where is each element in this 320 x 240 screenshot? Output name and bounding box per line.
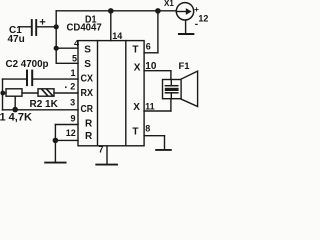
label 10 and wire pin 10 to speaker: [145, 61, 157, 72]
wire top +12V rail: [56, 10, 176, 12]
svg-text:T: T: [132, 127, 138, 138]
label 6: [146, 41, 151, 51]
svg-text:12: 12: [66, 128, 76, 138]
IC inner left separator: [97, 41, 99, 146]
svg-text:14: 14: [112, 31, 122, 41]
node pin 12 junction: [53, 138, 59, 144]
wire vertical from rail down to pin 5 (C1 branch): [55, 11, 57, 64]
pin number labels left side: [66, 38, 79, 138]
svg-text:S: S: [84, 59, 91, 70]
speaker F1 horn: [181, 71, 198, 106]
label C2 4700p: [6, 59, 49, 70]
pin 14 stub: [110, 11, 112, 41]
label X1: [164, 0, 174, 8]
label 7: [99, 144, 104, 154]
node left bus / pin 2 row: [0, 91, 5, 96]
label D1 CD4047: [67, 14, 103, 33]
svg-text:F1: F1: [179, 61, 191, 72]
svg-text:C2 4700p: C2 4700p: [6, 59, 49, 70]
wire X1 to ground: [185, 20, 187, 34]
speaker F1 piezo box: [163, 80, 182, 99]
wire R2 to pin 2: [54, 92, 78, 94]
svg-text:12: 12: [198, 13, 208, 23]
svg-text:CR: CR: [81, 104, 94, 115]
source X1 circle: [176, 3, 193, 20]
svg-text:-: -: [195, 19, 198, 30]
node C1 right junction: [54, 24, 59, 29]
resistor R1: [6, 89, 22, 96]
capacitor C1: [19, 20, 56, 35]
wire R1 bottom tap down to pin 3 wire: [14, 96, 16, 110]
svg-text:1: 1: [70, 68, 75, 78]
label 14: [112, 31, 122, 41]
wire pin 6 to rail: [144, 11, 158, 53]
svg-text:T: T: [132, 44, 138, 55]
label 8 and wire pin 8 to ground: [145, 124, 150, 134]
wire pin 1 right segment: [33, 78, 78, 80]
wire vertical pins 9/12 to ground: [54, 125, 56, 162]
resistor R2 (hatched): [38, 89, 54, 96]
IC pin function labels right column: [132, 44, 140, 137]
label R2 1K: [30, 99, 59, 110]
wire pin 3: [3, 109, 79, 111]
label R1 4,7K (clipped at left edge): [0, 111, 32, 123]
svg-text:CD4047: CD4047: [67, 23, 103, 34]
svg-text:S: S: [84, 45, 91, 56]
IC inner right separator: [125, 41, 127, 146]
IC pin function labels left column: [81, 45, 94, 143]
svg-text:9: 9: [70, 113, 75, 123]
wire R1 to R2: [22, 92, 38, 94]
svg-text:1 4,7K: 1 4,7K: [0, 111, 32, 123]
capacitor C2: [27, 71, 32, 86]
svg-text:11: 11: [145, 102, 155, 112]
pin 7 stub: [106, 146, 108, 164]
svg-text:4: 4: [74, 38, 79, 48]
svg-text:8: 8: [145, 124, 150, 134]
ground (pins 9/12): [45, 162, 65, 164]
svg-text:X: X: [134, 63, 141, 74]
svg-text:R: R: [85, 131, 93, 142]
svg-text:R: R: [85, 118, 93, 129]
label 11 and wire pin 11 to speaker: [145, 102, 155, 112]
wire pin 9: [55, 124, 78, 126]
label +12 -: [194, 5, 208, 30]
wire pin 1 left segment: [3, 78, 27, 80]
svg-text:2: 2: [70, 82, 75, 92]
ground (X1): [179, 33, 194, 35]
node pin 14 / rail: [108, 8, 114, 14]
svg-text:RX: RX: [81, 88, 94, 99]
wire pin 4: [56, 47, 78, 49]
svg-text:3: 3: [70, 98, 75, 108]
svg-text:7: 7: [99, 144, 104, 154]
svg-text:R2 1K: R2 1K: [30, 99, 59, 110]
node tap / pin 3 junction: [12, 107, 18, 113]
ground (pin 8): [156, 149, 171, 151]
speaker F1 label: [179, 61, 191, 72]
wire left vertical bus: [2, 79, 4, 110]
svg-text:47u: 47u: [8, 34, 25, 45]
svg-text:X1: X1: [164, 0, 174, 8]
svg-text:6: 6: [146, 41, 151, 51]
node pin 6 / rail: [155, 8, 161, 14]
wire pin 12: [55, 139, 78, 141]
IC D1 CD4047 outer body: [78, 41, 144, 146]
svg-text:5: 5: [72, 53, 77, 63]
svg-text:X: X: [133, 102, 140, 113]
ground (pin 7): [96, 164, 117, 166]
node pin 4 junction: [54, 46, 59, 51]
wire pin 5: [56, 62, 78, 64]
label C1 47u: [8, 25, 25, 45]
source X1 arrow: [176, 11, 186, 13]
dot before pin 2: [65, 86, 67, 88]
svg-text:CX: CX: [81, 73, 94, 84]
wire pin 2 left stub: [3, 92, 7, 94]
